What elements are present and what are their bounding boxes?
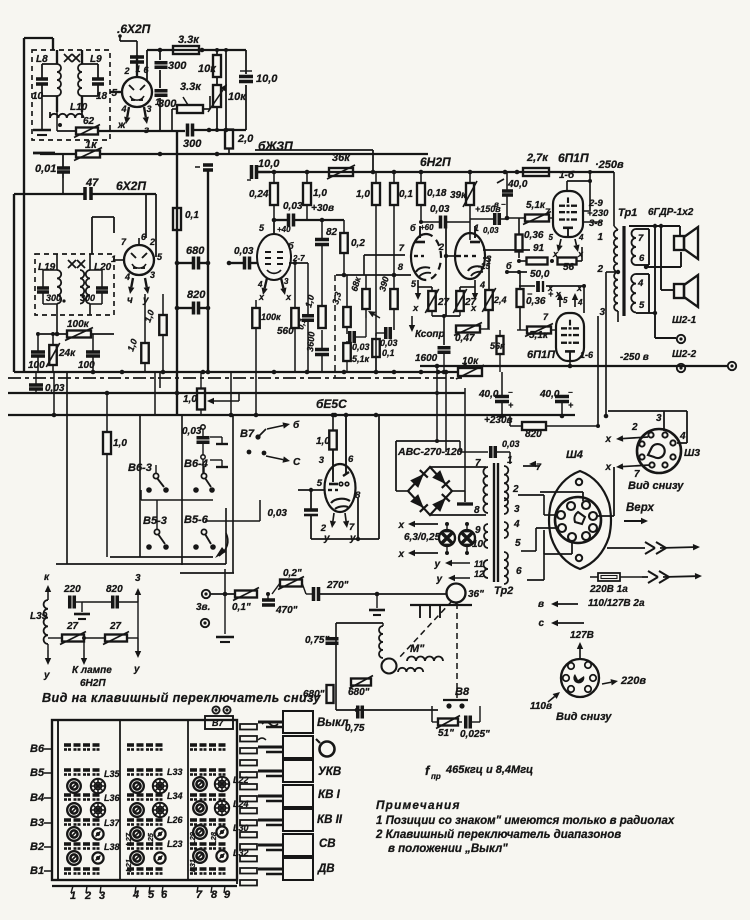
tube V7 6П1П lower <box>556 313 584 361</box>
svg-text:680": 680" <box>348 687 370 698</box>
svg-text:х: х <box>258 292 265 302</box>
tube V7 labels <box>527 312 594 361</box>
svg-text:7: 7 <box>349 522 355 533</box>
capacitor 0,03 bottom-left <box>29 372 65 394</box>
speaker 2 <box>674 275 698 307</box>
speaker bus wires <box>629 224 681 338</box>
svg-text:УКВ: УКВ <box>318 766 341 778</box>
svg-text:В5-3: В5-3 <box>143 515 167 527</box>
wire ant2 <box>209 622 280 624</box>
ground stubs right of 0,03 <box>210 437 228 467</box>
mains drop wires <box>435 366 465 491</box>
svg-text:1: 1 <box>474 223 479 233</box>
svg-text:127В: 127В <box>570 630 594 641</box>
resistor 27 (b) <box>453 289 476 316</box>
svg-text:2: 2 <box>512 484 519 495</box>
resistor 56 <box>550 247 582 273</box>
resistor 1,0 (a) <box>303 172 327 220</box>
resistor 0,47 <box>444 310 488 344</box>
svg-text:56: 56 <box>563 262 575 273</box>
cathode bottom wire <box>432 314 460 345</box>
svg-text:ж: ж <box>117 120 126 131</box>
capacitor 300 middle <box>155 91 178 130</box>
ground left of box <box>33 96 51 135</box>
svg-text:L28: L28 <box>209 831 218 845</box>
Ш3 x arrows <box>604 434 650 473</box>
svg-text:В8: В8 <box>455 686 470 698</box>
svg-text:100к: 100к <box>67 319 90 330</box>
svg-text:.6Х2П: .6Х2П <box>117 22 151 36</box>
svg-text:270": 270" <box>326 580 349 591</box>
capacitor 0,03 (f) <box>376 327 398 348</box>
resistor 5,1к (V6 grid) <box>505 200 553 232</box>
svg-text:7: 7 <box>121 237 127 247</box>
resistor 0,2" <box>257 568 306 594</box>
contact dash rows В6 <box>64 745 226 750</box>
svg-text:3-8: 3-8 <box>589 218 603 229</box>
capacitor 820 (L39) <box>82 584 138 609</box>
capacitor 100 right <box>78 334 100 374</box>
svg-text:6П1П: 6П1П <box>527 349 556 361</box>
svg-text:1,0: 1,0 <box>316 436 330 447</box>
resistor 3,3 sideways <box>330 275 350 334</box>
svg-text:б: б <box>288 241 294 251</box>
svg-text:АВС-270-120: АВС-270-120 <box>397 446 463 458</box>
svg-text:х: х <box>577 249 584 259</box>
svg-text:27: 27 <box>437 297 450 308</box>
electrolytic 40,0 (b) <box>539 388 574 418</box>
Тр1 secondary 4-5 <box>631 274 649 313</box>
capacitor 0,03 (V3 grid) <box>274 201 344 227</box>
svg-text:27: 27 <box>66 621 79 632</box>
svg-text:L19: L19 <box>38 262 56 273</box>
capacitor 470" <box>262 592 298 616</box>
capacitor 0,03 (switch) <box>182 425 210 473</box>
svg-text:6: 6 <box>348 454 354 465</box>
svg-text:Выкл: Выкл <box>317 717 348 729</box>
tube V5 6Н2П <box>455 226 485 279</box>
tube V5 pin labels <box>474 223 492 290</box>
svg-text:2 Клавишный переключатель диап: 2 Клавишный переключатель диапазонов <box>375 829 621 841</box>
trimmer marks <box>64 54 80 62</box>
В7 terminals <box>212 706 230 713</box>
svg-text:L27: L27 <box>124 832 133 846</box>
svg-text:L21: L21 <box>124 859 133 872</box>
wires to tube V2 grid <box>146 194 156 257</box>
electrolytic 10,0 input <box>247 158 280 180</box>
svg-text:5: 5 <box>515 538 521 549</box>
svg-text:5,1к: 5,1к <box>529 330 549 341</box>
tube V4 pin labels <box>398 243 417 289</box>
arrow в <box>538 577 578 610</box>
svg-text:0,01: 0,01 <box>35 163 56 175</box>
label fпр <box>425 763 533 781</box>
svg-text:7: 7 <box>634 469 640 480</box>
label Ксопр <box>409 316 445 340</box>
label -250 б <box>478 261 512 271</box>
svg-text:68к: 68к <box>349 275 363 292</box>
svg-text:L10: L10 <box>70 102 88 113</box>
tube V5 cathode <box>460 280 478 314</box>
svg-text:0,03: 0,03 <box>380 338 398 348</box>
svg-text:-25: -25 <box>478 261 491 271</box>
resistor 820 (supply) <box>510 416 600 440</box>
dashed link Тр2 to В8 <box>456 603 458 698</box>
svg-text:8: 8 <box>398 262 404 273</box>
resistor 10к lower (variable) <box>208 84 247 132</box>
label Ш4 <box>566 449 583 461</box>
band button leads <box>258 722 283 874</box>
dashed link Тр2 to motor <box>398 601 452 659</box>
svg-text:пр: пр <box>431 772 441 781</box>
svg-text:560: 560 <box>277 326 294 337</box>
svg-text:0,03: 0,03 <box>234 246 254 257</box>
svg-text:б: б <box>293 419 300 431</box>
resistor 56к right <box>490 330 505 372</box>
tube V4 6Н2П (half dashed) <box>411 226 441 280</box>
svg-text:0,2": 0,2" <box>283 568 302 579</box>
arrow up 127В <box>577 642 583 658</box>
svg-text:+: + <box>568 400 574 410</box>
resistor 68к <box>349 275 380 318</box>
resistor 1,0 (volume) <box>183 373 239 415</box>
label 1-б <box>559 169 575 181</box>
svg-text:Примечания: Примечания <box>376 798 461 812</box>
svg-text:36": 36" <box>468 589 484 600</box>
svg-text:0,03: 0,03 <box>268 508 288 519</box>
wire pin5 to box <box>110 91 122 93</box>
svg-text:+30в: +30в <box>311 203 334 214</box>
svg-text:1,0: 1,0 <box>183 394 197 405</box>
resistor 0,36 lower <box>517 272 546 330</box>
svg-text:3: 3 <box>656 413 662 424</box>
label Верх <box>624 502 654 524</box>
svg-text:100к: 100к <box>261 312 281 322</box>
svg-text:L37: L37 <box>104 818 121 828</box>
wires transformer to Ш4 <box>518 466 558 580</box>
wire 300-bottom row join <box>226 129 246 131</box>
arrow с <box>538 600 584 629</box>
keyboard frame <box>52 720 237 886</box>
svg-text:0,18: 0,18 <box>427 188 447 199</box>
svg-text:0,025": 0,025" <box>460 729 490 740</box>
label бЖЗП <box>258 139 293 153</box>
svg-text:3: 3 <box>599 307 605 318</box>
capacitor 0,75" (a) <box>305 633 339 646</box>
contact dash rows В4 + labels L36 L34 L24 <box>64 791 249 809</box>
label Вид снизу (Ш5) <box>556 711 612 723</box>
svg-text:+40: +40 <box>277 225 291 234</box>
svg-text:4: 4 <box>120 104 126 114</box>
capacitor 0,03 (V8) <box>268 508 318 519</box>
tube V2 pin labels <box>111 232 163 282</box>
switch В8 <box>443 696 468 709</box>
vertical between tubes <box>444 222 448 316</box>
capacitor 0,03 (d) <box>421 204 455 229</box>
keyboard dividers <box>120 720 188 880</box>
svg-text:L36: L36 <box>104 793 121 803</box>
tube V6 6П1П <box>553 191 583 237</box>
electrolytic 50,0 <box>519 269 586 313</box>
svg-text:27: 27 <box>109 621 122 632</box>
svg-text:10,0: 10,0 <box>256 73 278 85</box>
svg-text:Вид снизу: Вид снизу <box>628 480 684 492</box>
AVC dashed bus y380 <box>8 377 462 379</box>
svg-text:1-6: 1-6 <box>580 350 594 360</box>
svg-text:62: 62 <box>83 116 95 127</box>
svg-text:1: 1 <box>597 232 603 243</box>
label -250в <box>620 352 649 363</box>
capacitor 0,03 (mains) <box>460 439 520 464</box>
capacitor 1600 <box>415 348 451 375</box>
svg-text:3,3: 3,3 <box>330 291 343 306</box>
svg-text:1,0: 1,0 <box>113 438 127 449</box>
Тр2 secondary 1-2-3 <box>504 455 520 515</box>
svg-text:з: з <box>144 125 149 136</box>
loop box left <box>336 623 438 712</box>
middle ground L39 <box>74 602 90 619</box>
svg-text:Вид на клавишный переключате: Вид на клавишный переключатель снизу <box>42 691 321 705</box>
wire top loop 6ЖЗП <box>255 150 373 172</box>
tube V1 top cap <box>130 57 144 62</box>
label 6Н2П <box>420 155 451 169</box>
svg-text:L33: L33 <box>167 767 183 777</box>
long wire to Тр2 ferrite <box>319 592 446 597</box>
svg-text:3.3к: 3.3к <box>178 34 200 46</box>
svg-text:5: 5 <box>563 296 568 305</box>
svg-text:3.3к: 3.3к <box>180 81 202 93</box>
svg-text:L35: L35 <box>104 769 121 779</box>
svg-text:2: 2 <box>123 66 129 76</box>
tube V8 6Е5С <box>325 464 356 512</box>
svg-text:0,1: 0,1 <box>399 189 413 200</box>
resistor 51" <box>432 716 460 740</box>
main bus y372 <box>14 370 458 375</box>
svg-text:820: 820 <box>187 289 206 301</box>
svg-text:0,03: 0,03 <box>182 426 202 437</box>
svg-text:3: 3 <box>514 504 520 515</box>
capacitor 0,01 <box>35 154 70 195</box>
svg-text:Ш2-1: Ш2-1 <box>672 315 697 326</box>
electrolytic 40,0 (a) <box>478 372 514 418</box>
svg-text:В3: В3 <box>30 817 44 829</box>
svg-text:у: у <box>133 664 140 675</box>
svg-text:1,0: 1,0 <box>313 188 327 199</box>
resistor 0,1 (V4 cathode) <box>372 339 394 372</box>
label КВI <box>318 789 341 801</box>
svg-text:0,24: 0,24 <box>249 189 269 200</box>
resistor 0,2 <box>340 220 365 277</box>
svg-text:465кгц и 8,4Мгц: 465кгц и 8,4Мгц <box>445 764 533 776</box>
svg-text:1,0: 1,0 <box>125 338 139 353</box>
svg-text:5: 5 <box>111 88 117 99</box>
svg-text:0,47: 0,47 <box>455 333 475 344</box>
tube V3 pins bottom arrows <box>257 277 292 302</box>
svg-text:в −: в − <box>494 200 506 209</box>
svg-text:820: 820 <box>106 584 123 595</box>
resistor 36к <box>327 152 355 179</box>
tube V6 bottom arrows <box>549 233 584 259</box>
tube V5 grid wire <box>446 256 489 290</box>
svg-text:5: 5 <box>549 233 554 242</box>
svg-text:4: 4 <box>679 431 686 442</box>
svg-text:51": 51" <box>438 728 454 739</box>
svg-text:В6: В6 <box>30 743 45 755</box>
tube V2 6Х2П circle <box>124 245 154 275</box>
label б +60 above V4 <box>410 223 434 233</box>
label +230в <box>484 415 513 426</box>
coil L19 <box>38 254 61 315</box>
resistor 390 <box>377 275 397 330</box>
IF transformer dashed box L8/L9 <box>32 50 110 140</box>
svg-text:82: 82 <box>326 227 338 238</box>
svg-text:8: 8 <box>211 889 218 901</box>
tube V8 bottom arrows <box>323 513 356 544</box>
Ш3 pin labels <box>631 413 686 480</box>
capacitor 10 (L8 tuning) <box>32 64 57 102</box>
tube V4 cathode <box>412 280 432 314</box>
Тр1 secondary 7-6 <box>632 229 650 265</box>
socket Ш4 circle <box>555 497 601 543</box>
capacitor 0,75 (b) <box>345 706 365 735</box>
mains output arrows 2 <box>642 571 702 583</box>
capacitor 82 <box>315 227 338 245</box>
coil L20 <box>80 254 112 315</box>
capacitor 0,03 grid V6 <box>455 213 507 235</box>
svg-text:0,1: 0,1 <box>185 210 199 221</box>
svg-text:В5-6: В5-6 <box>184 514 209 526</box>
resistor 680" vertical <box>303 680 334 703</box>
transformer Тр2 core <box>494 463 498 582</box>
resistor 91 <box>517 243 548 265</box>
svg-text:10к: 10к <box>198 63 217 75</box>
indicator circle <box>316 739 335 757</box>
svg-text:220: 220 <box>63 584 81 595</box>
V7 top arrows <box>547 283 583 307</box>
svg-text:2: 2 <box>631 422 638 433</box>
speaker 1 <box>674 227 698 259</box>
svg-text:М": М" <box>410 643 425 655</box>
svg-text:18: 18 <box>96 91 108 102</box>
tube V3 6ЖЗП <box>257 234 291 280</box>
svg-text:6,3/0,25: 6,3/0,25 <box>404 532 441 543</box>
capacitor 300 (L20) <box>80 270 108 304</box>
AVC dashed vertical <box>334 275 336 378</box>
svg-text:у: у <box>435 574 442 585</box>
svg-text:х: х <box>576 283 583 293</box>
Тр1 core <box>622 226 625 316</box>
svg-text:в положении „Выкл": в положении „Выкл" <box>388 843 508 855</box>
svg-text:820: 820 <box>525 429 542 440</box>
wire V7 area to -250v <box>568 361 573 368</box>
resistor 100к <box>40 315 114 341</box>
svg-text:470": 470" <box>275 605 298 616</box>
socket Ш3 <box>637 429 681 473</box>
label 127В <box>570 630 594 641</box>
svg-text:В7: В7 <box>240 428 255 440</box>
svg-text:1 Позиции со знаком" имеются т: 1 Позиции со знаком" имеются только в ра… <box>376 815 675 827</box>
switch В6-4 <box>184 458 215 493</box>
svg-text:2,7к: 2,7к <box>526 152 549 164</box>
resistor 100к (V3) <box>252 300 281 372</box>
svg-text:3: 3 <box>135 573 141 584</box>
svg-text:220в: 220в <box>620 675 646 687</box>
svg-text:9: 9 <box>475 525 481 536</box>
svg-text:бЕ5С: бЕ5С <box>316 397 347 411</box>
tube V3 pin 6 wire <box>288 241 308 263</box>
svg-text:В6-3: В6-3 <box>128 462 152 474</box>
svg-text:10к: 10к <box>462 356 479 367</box>
antenna terminal 2 <box>201 619 209 627</box>
wire tube plate up to bus <box>147 50 246 80</box>
svg-text:бЖЗП: бЖЗП <box>258 139 293 153</box>
pilot lamp 2 <box>459 522 488 555</box>
arrow down left L39 <box>43 650 51 681</box>
svg-text:24к: 24к <box>58 348 76 359</box>
svg-text:1: 1 <box>111 254 116 264</box>
ground below ant <box>216 594 234 642</box>
svg-text:б: б <box>506 261 512 271</box>
bridge wires to winding <box>396 460 486 515</box>
Ш4 pins <box>557 501 597 541</box>
label 6,3/0,25 <box>404 532 441 543</box>
tube V3 grids <box>265 252 283 273</box>
svg-text:300: 300 <box>168 60 187 72</box>
antenna terminal 1 <box>202 590 210 598</box>
svg-text:СВ: СВ <box>319 838 336 850</box>
В8 box <box>432 706 480 722</box>
electrolytic 40,0 (screen) <box>494 172 528 218</box>
svg-text:0,36: 0,36 <box>526 296 546 307</box>
label М" <box>410 643 425 655</box>
long vertical x177 <box>176 130 178 415</box>
capacitor 680 <box>175 245 211 270</box>
coil L9 <box>78 50 102 112</box>
svg-text:6Н2П: 6Н2П <box>80 678 106 689</box>
terminal Ш2-2 <box>677 364 685 372</box>
svg-text:40,0: 40,0 <box>539 389 560 400</box>
resistor 27 (L39 a) <box>48 621 86 645</box>
svg-text:40,0: 40,0 <box>478 389 499 400</box>
svg-text:0,03: 0,03 <box>283 201 303 212</box>
title Вид на клавишный переключатель снизу <box>42 691 321 705</box>
svg-text:11: 11 <box>474 559 483 569</box>
capacitor 300 (L19) <box>37 270 66 304</box>
resistor 560 <box>277 261 299 372</box>
svg-text:6Н2П: 6Н2П <box>420 155 451 169</box>
coil circles row 1 <box>67 777 229 793</box>
svg-text:4: 4 <box>577 298 583 307</box>
svg-text:х: х <box>604 434 611 445</box>
trimmer marks 2 <box>68 260 85 268</box>
wires V6 V7 anode feeds <box>583 222 602 310</box>
tube V6 pin labels <box>545 198 609 229</box>
note heading Примечания <box>376 798 461 812</box>
ground bar cluster <box>410 602 472 618</box>
svg-text:1,0: 1,0 <box>356 189 370 200</box>
tube V1 pin labels <box>111 64 160 114</box>
resistor 3,3к lower <box>172 81 210 130</box>
capacitor 47 <box>14 177 156 200</box>
tube V1 6Х2П circle <box>120 36 152 107</box>
svg-text:б: б <box>410 223 416 233</box>
svg-text:L29: L29 <box>188 831 197 845</box>
label бЕ5С <box>316 397 347 411</box>
svg-text:L26: L26 <box>167 815 184 825</box>
resistor 24к <box>46 332 76 372</box>
svg-text:110в: 110в <box>530 701 552 712</box>
svg-text:7: 7 <box>638 233 644 244</box>
